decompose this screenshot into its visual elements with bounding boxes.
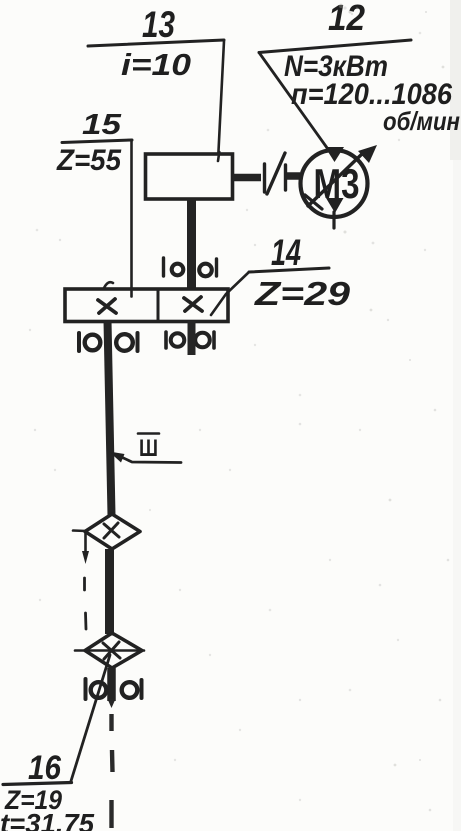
centerline dashes	[112, 714, 113, 828]
svg-text:16: 16	[28, 749, 62, 787]
sprocket lower	[75, 633, 144, 668]
gearbox 13 housing	[146, 154, 233, 199]
motor M3	[301, 145, 378, 228]
coupling	[265, 153, 286, 194]
svg-text:i=10: i=10	[121, 47, 191, 82]
lower shaft end	[107, 668, 116, 701]
bearing pair upper	[164, 258, 217, 276]
svg-text:Z=29: Z=29	[254, 275, 351, 312]
scan speckles	[34, 6, 427, 761]
bottom arrow	[326, 198, 344, 213]
gear mark right	[184, 298, 202, 311]
tick above housing	[104, 282, 113, 288]
gear mark left	[98, 300, 116, 313]
svg-text:Ш: Ш	[139, 435, 158, 462]
shaft between sprockets	[105, 549, 114, 634]
leader line 13 tip	[218, 152, 219, 161]
bearing pair right lower	[166, 332, 214, 348]
label 12	[259, 0, 460, 136]
svg-text:14: 14	[271, 232, 301, 273]
long vertical shaft III	[108, 321, 112, 515]
label 14	[249, 232, 351, 312]
motor shaft	[287, 172, 300, 180]
label 16	[0, 749, 94, 831]
chain line	[82, 532, 89, 630]
gear unit housing 15/14	[65, 282, 228, 321]
top arrow	[325, 147, 344, 162]
shaft III arrow and label	[109, 434, 181, 463]
rotation arrow diagonal	[308, 153, 363, 206]
svg-text:Z=55: Z=55	[56, 144, 122, 177]
sprocket upper	[73, 514, 140, 549]
input shaft (vertical from gearbox)	[187, 199, 196, 289]
svg-text:об/мин: об/мин	[383, 106, 460, 136]
leader line 15	[130, 141, 133, 296]
leader line 14	[211, 272, 249, 315]
bearing pair bottom	[86, 679, 142, 699]
svg-text:t=31,75: t=31,75	[0, 808, 94, 831]
leader line 13	[218, 41, 224, 161]
leader line 12	[259, 53, 330, 153]
bearing pair left lower	[79, 333, 138, 351]
shaft gearbox to coupling	[233, 174, 261, 182]
label 13	[88, 4, 224, 82]
output stub shaft below right gear	[188, 321, 196, 355]
svg-text:15: 15	[82, 109, 122, 141]
leader line 16	[71, 655, 110, 781]
svg-text:13: 13	[142, 4, 175, 45]
label 15	[56, 109, 132, 177]
svg-text:12: 12	[328, 0, 365, 38]
